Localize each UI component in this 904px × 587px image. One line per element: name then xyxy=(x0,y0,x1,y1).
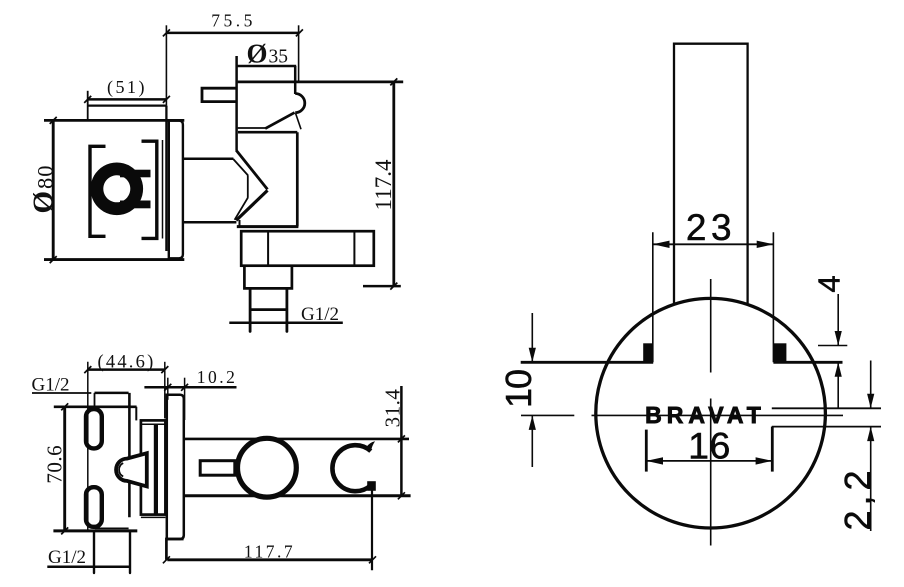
spout cone upper diagonal xyxy=(236,150,267,189)
ext line 75.5 right xyxy=(298,25,300,81)
dim 4 arrows xyxy=(837,294,839,346)
svg-text:(51): (51) xyxy=(107,77,147,98)
outlet pipe divider xyxy=(250,308,287,311)
aerator tip rectangle xyxy=(202,88,237,101)
spout bottom line xyxy=(184,494,411,497)
connector bar lower xyxy=(120,201,151,209)
svg-text:(44.6): (44.6) xyxy=(98,353,156,373)
tick 117.4 bottom xyxy=(363,285,401,288)
svg-text:10: 10 xyxy=(498,370,539,408)
left cartridge bracket xyxy=(90,146,106,236)
shared ext line 44.6 left xyxy=(87,362,89,531)
valve box top edge xyxy=(44,119,184,122)
lever knob arc xyxy=(295,94,305,113)
spout body right edge xyxy=(296,132,299,226)
svg-text:117.7: 117.7 xyxy=(244,542,295,562)
tube top edge xyxy=(183,158,234,161)
svg-text:Ø80: Ø80 xyxy=(28,164,60,213)
inlet capsule lower xyxy=(86,487,102,527)
ext line (44.6) right xyxy=(164,362,166,419)
handle cylinder right edge xyxy=(294,66,297,94)
handle dome top view xyxy=(116,453,147,486)
dim line 10.2 xyxy=(144,386,236,389)
svg-text:2,2: 2,2 xyxy=(837,465,878,530)
svg-text:75.5: 75.5 xyxy=(211,11,256,31)
dim line (51) xyxy=(88,98,167,101)
dome tip inner arc xyxy=(119,463,123,476)
dim line 23 with arrows xyxy=(653,243,774,245)
spout nozzle circle xyxy=(238,438,297,497)
lever edge short diagonal xyxy=(296,113,301,129)
plate step bottom xyxy=(166,539,183,560)
svg-text:23: 23 xyxy=(686,207,736,248)
connector bar upper xyxy=(120,170,151,178)
horizontal centerline left xyxy=(521,414,574,416)
aerator rect top view xyxy=(200,461,235,476)
tube bottom edge xyxy=(183,221,237,224)
G1/2 leader line top view xyxy=(229,322,342,325)
svg-text:G1/2: G1/2 xyxy=(48,547,86,568)
svg-text:117.4: 117.4 xyxy=(371,159,396,210)
inner box right edge xyxy=(128,393,131,517)
dim 10 arrows xyxy=(531,313,533,362)
box bottom edge xyxy=(53,529,137,532)
handle stem band xyxy=(154,424,158,514)
svg-text:G1/2: G1/2 xyxy=(301,304,339,325)
svg-text:16: 16 xyxy=(688,425,731,467)
handle cylinder top xyxy=(237,65,297,68)
svg-text:BRAVAT: BRAVAT xyxy=(645,402,766,428)
ext line 10.2 right xyxy=(184,378,186,420)
spout cone inner face xyxy=(247,175,249,197)
vertical centerline lower xyxy=(710,399,712,546)
right cartridge bracket xyxy=(142,141,157,238)
dim line 117.4 vertical xyxy=(392,82,395,286)
vertical centerline upper xyxy=(710,279,712,373)
holder C hook xyxy=(332,445,370,491)
dim line 75.5 xyxy=(166,32,299,35)
box right wall / shared ext line xyxy=(165,25,167,105)
slot 16 left edge xyxy=(645,430,648,472)
inner box left stub xyxy=(94,393,96,409)
escutcheon inner bottom line xyxy=(141,516,166,518)
svg-text:10.2: 10.2 xyxy=(197,367,238,387)
under-cylinder ledge xyxy=(238,127,266,129)
valve box bottom edge xyxy=(44,258,184,261)
wall plate side profile xyxy=(169,121,183,259)
inner box left edge / ext line (51) xyxy=(87,91,89,121)
ext line hook to dim xyxy=(371,490,373,570)
spout top line xyxy=(184,438,409,441)
2.2 ref line lower xyxy=(772,426,881,428)
ext line 10.2 left xyxy=(167,378,169,400)
svg-text:4: 4 xyxy=(812,275,847,292)
2.2 ref line upper xyxy=(772,407,881,409)
box step vertical xyxy=(135,407,137,421)
body bottom thick edge xyxy=(237,225,299,228)
inner box bottom edge xyxy=(95,527,129,529)
cartridge ring xyxy=(91,163,144,216)
outlet pipe lines below box xyxy=(93,531,95,573)
svg-text:31.4: 31.4 xyxy=(381,389,405,428)
handle stem rectangle xyxy=(674,44,748,304)
inner box top edge xyxy=(88,104,167,106)
ext line 23 right xyxy=(772,232,774,362)
small connect stub xyxy=(239,220,241,226)
spout cone lower diagonal xyxy=(236,190,267,220)
spout body top edge xyxy=(238,131,297,134)
handle escutcheon rect xyxy=(141,420,166,514)
tick for 4 xyxy=(818,345,847,347)
box top edge xyxy=(54,405,137,408)
inner wall line xyxy=(162,140,164,239)
spout cone inner upper xyxy=(233,159,248,175)
box left edge / dim line 70.6 xyxy=(63,406,66,532)
G1/2 upper leader xyxy=(32,392,91,394)
svg-text:G1/2: G1/2 xyxy=(32,375,70,396)
elbow inner left line xyxy=(267,231,269,266)
svg-text:70.6: 70.6 xyxy=(43,445,67,484)
inner box top edge xyxy=(95,392,129,395)
slot line right xyxy=(773,361,842,364)
notch right xyxy=(773,343,786,362)
elbow inner right line xyxy=(353,231,355,266)
escutcheon inner top line xyxy=(141,423,166,425)
notch left xyxy=(643,343,653,362)
hook bottom square xyxy=(367,481,376,491)
handle cylinder left edge xyxy=(235,56,238,151)
dim line (44.6) xyxy=(88,368,165,371)
slot line left xyxy=(521,361,654,364)
horizontal centerline main xyxy=(592,414,844,416)
inlet capsule upper xyxy=(86,409,102,448)
dim line 31.4 xyxy=(400,386,403,495)
dim line 16 with arrows xyxy=(646,460,772,462)
wall plate top view xyxy=(167,395,184,539)
slot 16 right edge xyxy=(771,427,774,472)
valve box left edge / dim line Ø80 xyxy=(52,119,55,260)
elbow housing rect xyxy=(241,231,374,266)
dimension oblique ticks xyxy=(50,29,405,563)
outlet pipe right xyxy=(285,288,288,331)
hook tip xyxy=(367,441,376,450)
svg-text:Ø35: Ø35 xyxy=(247,39,289,69)
body top thick line to dim xyxy=(238,81,404,84)
lever underside diagonal xyxy=(265,113,294,129)
ext line 23 left xyxy=(652,232,654,362)
dim 2.2 arrows xyxy=(870,361,872,409)
outlet pipe left xyxy=(249,288,252,331)
G1/2 lower underline xyxy=(47,566,130,569)
escutcheon circle xyxy=(596,298,826,528)
spout cone inner lower xyxy=(235,197,248,219)
outlet block xyxy=(244,266,292,289)
dim line 117.7 xyxy=(167,558,372,561)
